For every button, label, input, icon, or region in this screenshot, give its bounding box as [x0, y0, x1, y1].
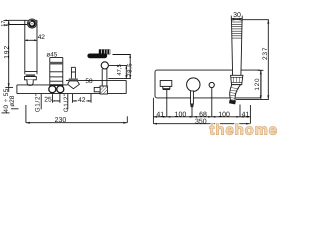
svg-text:237: 237	[262, 47, 269, 60]
svg-text:ø28: ø28	[9, 95, 16, 107]
svg-text:100: 100	[218, 112, 230, 119]
svg-text:350: 350	[195, 118, 207, 125]
svg-text:78,5: 78,5	[126, 63, 133, 77]
svg-text:17: 17	[1, 21, 7, 27]
svg-text:47,5: 47,5	[117, 64, 123, 75]
svg-text:41: 41	[242, 111, 250, 118]
svg-text:41: 41	[156, 111, 164, 118]
svg-text:192: 192	[4, 45, 11, 59]
svg-text:42: 42	[78, 97, 86, 104]
svg-text:G1/2": G1/2"	[34, 93, 41, 112]
svg-text:ø45: ø45	[46, 51, 57, 58]
svg-text:25: 25	[44, 97, 52, 104]
svg-text:230: 230	[55, 117, 67, 124]
svg-text:100: 100	[175, 112, 187, 119]
svg-text:58: 58	[85, 78, 93, 85]
svg-text:thehome: thehome	[210, 122, 279, 138]
svg-text:30: 30	[233, 12, 241, 19]
svg-text:42: 42	[38, 34, 46, 41]
svg-text:120: 120	[254, 78, 261, 91]
svg-text:G1/2": G1/2"	[63, 93, 70, 112]
